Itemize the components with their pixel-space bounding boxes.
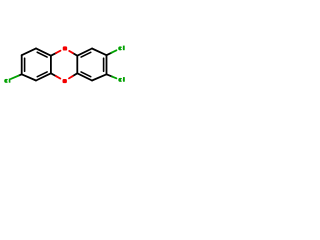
bond E=F main (21, 55, 23, 74)
atom Cl1 left chlorine glyph l (9, 79, 11, 83)
atom Cl2 upper-right chlorine glyph l (123, 46, 125, 51)
bond A=B inner (37, 52, 47, 57)
atom Cl3 lower-right chlorine glyph l (123, 77, 125, 82)
bond E-Cl1 black half (19, 74, 22, 75)
bond B'-C' fused (76, 56, 78, 74)
bond E=F inner (24, 58, 26, 71)
bond F-A single (22, 48, 36, 55)
bond C-O2 colored half (56, 76, 60, 78)
bond C'-O2 black half (72, 73, 77, 76)
bond B'=A' main (77, 49, 92, 56)
atom Cl2 upper-right chlorine glyph C (118, 46, 122, 50)
bond D'=C' inner (81, 72, 91, 77)
bond G-Cl2 colored half (111, 50, 116, 53)
atom O1 top oxygen glyph (63, 46, 67, 50)
bond C'-O2 colored half (69, 76, 73, 78)
atom Cl1 glyph C notch (7, 80, 8, 82)
bond C=D main (36, 73, 51, 80)
bond H-D' single (92, 74, 107, 80)
bond C-O2 black half (51, 73, 56, 76)
bond A'-G single (92, 49, 107, 56)
atom Cl3 lower-right chlorine glyph C (118, 78, 122, 82)
bond B-O1 black half (51, 53, 56, 56)
bond B-C fused (50, 56, 52, 74)
bond B'-O1 colored half (69, 51, 73, 53)
background (0, 0, 130, 130)
bond D-E single (22, 74, 36, 80)
bond G-Cl2 black half (107, 53, 112, 56)
atom Cl3 glyph C notch (121, 79, 122, 81)
bond C=D inner (37, 72, 47, 77)
bond B'=A' inner (81, 52, 91, 57)
atom O2 bottom oxygen glyph (63, 79, 67, 83)
atom Cl1 left chlorine glyph C (4, 79, 8, 83)
atom Cl2 glyph C notch (121, 48, 122, 50)
bond A=B main (36, 48, 51, 55)
bond G=H inner (103, 58, 105, 71)
bond H-Cl3 black half (107, 74, 113, 76)
bond E-Cl1 colored half (11, 76, 19, 79)
bond B-O1 colored half (56, 51, 61, 53)
bond H-Cl3 colored half (112, 77, 116, 79)
bond B'-O1 black half (72, 53, 77, 56)
bond G=H main (106, 55, 108, 74)
bond D'=C' main (77, 73, 92, 80)
